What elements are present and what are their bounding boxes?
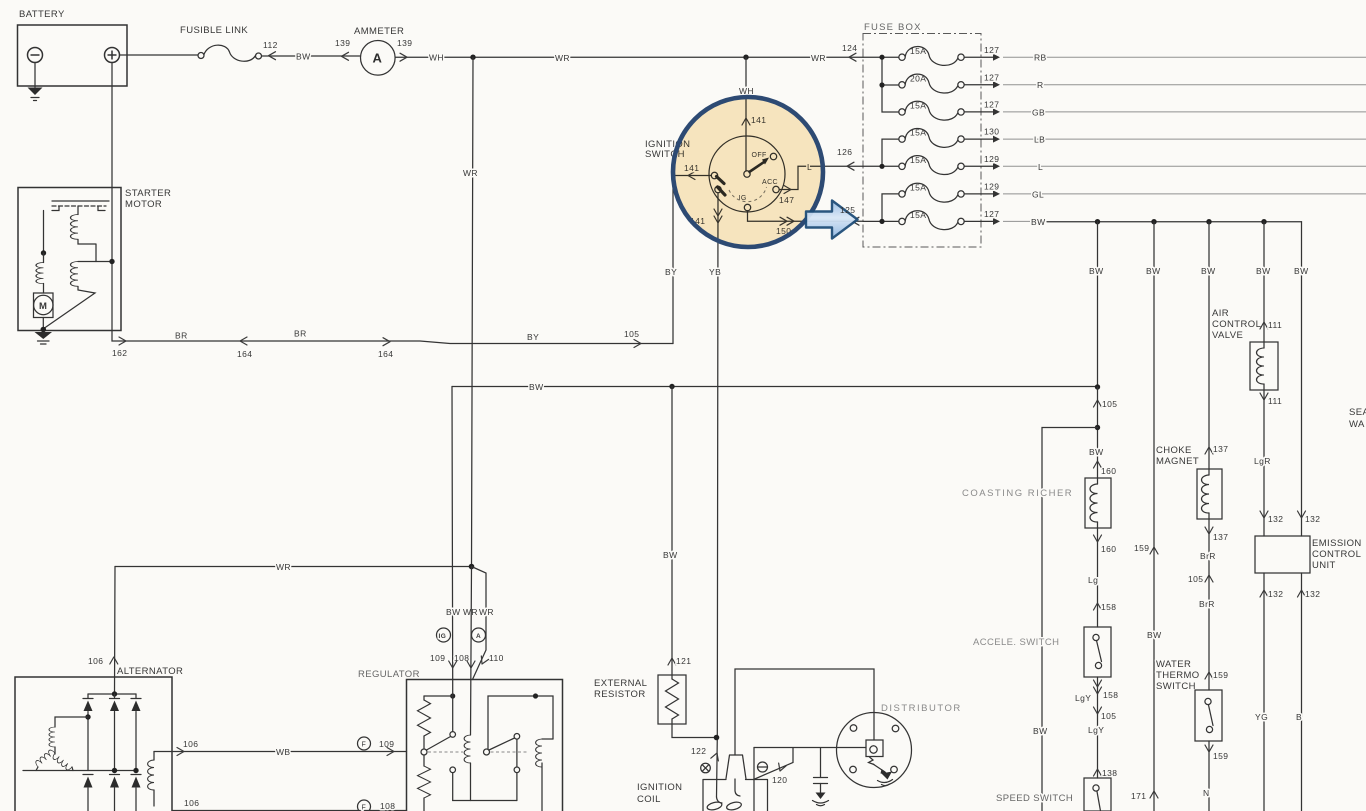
wire WR vertical — [472, 57, 474, 566]
svg-text:F: F — [362, 805, 367, 811]
wire ammeter to fuse box — [395, 56, 863, 58]
svg-text:FUSE BOX: FUSE BOX — [864, 22, 922, 33]
node branch — [1095, 425, 1100, 430]
voltage coil 2 — [542, 738, 553, 740]
svg-text:127: 127 — [984, 45, 999, 55]
svg-text:132: 132 — [1305, 589, 1320, 599]
svg-text:WA: WA — [1349, 419, 1365, 430]
ground (distributor) — [882, 772, 893, 780]
diode D3 — [131, 694, 141, 771]
series field coil (starter) — [43, 253, 45, 263]
svg-text:125: 125 — [840, 205, 855, 215]
regulator box — [407, 680, 563, 811]
svg-text:BW: BW — [529, 382, 544, 392]
emission control unit — [1255, 536, 1310, 573]
svg-text:106: 106 — [183, 739, 198, 749]
breaker points — [866, 740, 883, 757]
resistor R2 — [423, 755, 425, 766]
wire R — [1003, 84, 1366, 86]
svg-text:106: 106 — [184, 798, 199, 808]
contact B (left) — [711, 172, 717, 178]
terminal - — [758, 762, 768, 772]
rotor arm — [873, 764, 885, 772]
wire BW main — [1003, 220, 1030, 222]
svg-text:112: 112 — [263, 40, 278, 50]
svg-text:BW: BW — [1147, 630, 1162, 640]
external resistor body — [658, 675, 686, 724]
svg-text:121: 121 — [676, 656, 691, 666]
wire to stator coil — [55, 717, 88, 727]
svg-text:COIL: COIL — [637, 794, 661, 805]
coil case — [703, 780, 768, 811]
dashed link 1 — [428, 751, 463, 753]
svg-text:SPEED SWITCH: SPEED SWITCH — [996, 793, 1073, 804]
svg-text:132: 132 — [1268, 589, 1283, 599]
svg-text:126: 126 — [837, 147, 852, 157]
svg-text:138: 138 — [1102, 768, 1117, 778]
dashed link 2 — [491, 751, 529, 753]
wire GL — [1003, 193, 1366, 195]
wire branch to accel/speed feeder — [1042, 428, 1098, 811]
voltage coil 1 — [464, 735, 470, 763]
terminal F lower — [358, 800, 371, 811]
starter motor box — [18, 188, 121, 331]
svg-text:BW: BW — [1201, 266, 1216, 276]
svg-text:BW: BW — [1089, 447, 1104, 457]
svg-text:164: 164 — [237, 349, 252, 359]
bottom rail — [453, 800, 517, 802]
svg-text:BY: BY — [527, 332, 539, 342]
svg-text:WB: WB — [276, 747, 291, 757]
terminal F — [358, 737, 371, 750]
diode D6 — [131, 775, 141, 811]
diode D2 — [110, 694, 120, 771]
svg-text:ALTERNATOR: ALTERNATOR — [117, 666, 183, 677]
svg-text:BATTERY: BATTERY — [19, 9, 65, 20]
ground (condenser) — [816, 793, 826, 800]
svg-text:LgY: LgY — [1088, 725, 1104, 735]
wire BW column 2 — [1153, 222, 1155, 811]
node stator tap — [85, 714, 90, 719]
wire WB field to regulator — [154, 751, 407, 753]
node — [469, 564, 475, 570]
svg-text:139: 139 — [335, 38, 350, 48]
HT lead to distributor — [735, 669, 874, 755]
fuse F7 15A — [899, 211, 964, 230]
wire YB vertical (ignition to coil) — [717, 193, 719, 797]
svg-text:AIR: AIR — [1212, 308, 1229, 319]
relay 1 arm — [427, 737, 451, 751]
diode bus top — [88, 693, 136, 695]
svg-text:137: 137 — [1213, 532, 1228, 542]
diode D4 — [83, 775, 93, 811]
fuse F3 15A — [899, 101, 964, 120]
svg-text:108: 108 — [380, 801, 395, 811]
dashed detent arc — [729, 187, 767, 202]
wire BY vertical (ignition to BR line) — [672, 176, 674, 344]
svg-text:CONTROL: CONTROL — [1212, 319, 1261, 330]
bus group 3 — [863, 194, 899, 222]
svg-text:20A: 20A — [910, 74, 926, 84]
wire - terminal to distributor — [754, 748, 794, 780]
node — [41, 327, 47, 333]
svg-text:129: 129 — [984, 182, 999, 192]
svg-text:105: 105 — [1102, 399, 1117, 409]
primary winding — [717, 797, 723, 803]
contact upper — [450, 732, 456, 738]
contact IG — [744, 204, 750, 210]
svg-text:UNIT: UNIT — [1312, 560, 1336, 571]
relay 2 pivot — [484, 749, 490, 755]
wire BW column 1 — [1097, 222, 1099, 387]
svg-text:A: A — [476, 633, 481, 640]
contact ACC — [773, 186, 779, 192]
svg-text:WH: WH — [429, 53, 444, 63]
svg-text:139: 139 — [397, 38, 412, 48]
resistor R1 — [423, 696, 425, 700]
ammeter A — [361, 41, 396, 76]
svg-text:159: 159 — [1213, 751, 1228, 761]
fuse box border — [863, 34, 981, 248]
svg-text:BW: BW — [1033, 726, 1048, 736]
fuse F2 20A — [899, 74, 964, 93]
node BW c3 — [1206, 219, 1211, 224]
svg-text:BY: BY — [665, 267, 677, 277]
ignition switch body — [709, 136, 785, 212]
diode D1 — [83, 694, 93, 771]
callout blue arrow — [806, 201, 858, 239]
svg-text:STARTER: STARTER — [125, 188, 171, 199]
svg-text:BW: BW — [1146, 266, 1161, 276]
svg-text:127: 127 — [984, 209, 999, 219]
contact lower 2 — [514, 767, 520, 773]
svg-text:129: 129 — [984, 154, 999, 164]
wire lower field (cut) — [172, 810, 407, 811]
svg-text:WR: WR — [811, 53, 826, 63]
svg-text:REGULATOR: REGULATOR — [358, 669, 420, 680]
svg-text:RESISTOR: RESISTOR — [594, 689, 646, 700]
node diamond — [669, 384, 674, 389]
wire WR to alternator — [114, 567, 117, 695]
node BW c2 — [1151, 219, 1156, 224]
svg-text:IG: IG — [439, 633, 447, 640]
motor M — [34, 293, 54, 318]
svg-text:ACCELE. SWITCH: ACCELE. SWITCH — [973, 637, 1059, 648]
svg-text:DISTRIBUTOR: DISTRIBUTOR — [881, 703, 962, 714]
svg-text:159: 159 — [1213, 670, 1228, 680]
rotor field coil — [153, 752, 155, 761]
svg-text:158: 158 — [1101, 602, 1116, 612]
svg-text:BrR: BrR — [1199, 599, 1215, 609]
svg-text:CONTROL: CONTROL — [1312, 549, 1361, 560]
svg-text:BW: BW — [663, 550, 678, 560]
water thermo switch — [1195, 690, 1222, 741]
node — [1095, 384, 1100, 389]
svg-text:A: A — [373, 51, 383, 66]
cap contacts — [850, 725, 857, 732]
wire BW down to regulator IG — [451, 387, 454, 680]
svg-text:YB: YB — [709, 267, 721, 277]
key lever — [749, 162, 765, 173]
distributor body — [837, 713, 912, 788]
svg-text:R: R — [1037, 80, 1044, 90]
stator coil vertical — [49, 727, 55, 747]
node BW c4 — [1261, 219, 1266, 224]
node: junction WR vertical — [470, 55, 475, 60]
terminal A — [472, 628, 486, 642]
svg-text:BW: BW — [1294, 266, 1309, 276]
svg-text:EMISSION: EMISSION — [1312, 538, 1362, 549]
svg-text:132: 132 — [1305, 514, 1320, 524]
svg-text:LgR: LgR — [1254, 456, 1271, 466]
svg-text:124: 124 — [842, 43, 857, 53]
node — [41, 250, 46, 255]
wire switch B to BY — [673, 175, 711, 177]
wire GB — [1003, 111, 1366, 113]
stator rail — [23, 770, 137, 772]
wire BR-BY starter to ignition switch — [112, 331, 673, 344]
svg-text:164: 164 — [378, 349, 393, 359]
svg-text:COASTING RICHER: COASTING RICHER — [962, 488, 1073, 499]
svg-text:EXTERNAL: EXTERNAL — [594, 678, 647, 689]
condenser — [820, 748, 822, 778]
svg-text:VALVE: VALVE — [1212, 330, 1243, 341]
svg-text:LB: LB — [1034, 135, 1045, 145]
wire BW column 3 — [1208, 222, 1210, 469]
svg-text:BW: BW — [1089, 266, 1104, 276]
contact upper 2 — [514, 734, 520, 740]
wire link to ammeter, label 112 BW 139 — [262, 55, 361, 57]
node BW c1 — [1095, 219, 1100, 224]
fuse F1 15A — [899, 47, 964, 66]
node — [714, 735, 720, 741]
svg-text:15A: 15A — [910, 183, 926, 193]
svg-text:WR: WR — [463, 607, 478, 617]
wire battery+ to fusible link — [120, 54, 198, 56]
bus group 1 — [863, 57, 899, 112]
solenoid contact bar — [52, 200, 109, 202]
svg-text:111: 111 — [1268, 320, 1282, 330]
svg-text:WR: WR — [479, 607, 494, 617]
fusible link — [198, 53, 204, 59]
svg-text:IGNITION: IGNITION — [637, 782, 682, 793]
wire BW down to external resistor — [671, 387, 673, 676]
coil hold-in (starter) — [78, 261, 112, 263]
svg-text:162: 162 — [112, 348, 127, 358]
wire BW column 5 — [1301, 222, 1303, 536]
diode D5 — [110, 775, 120, 811]
svg-text:WATER: WATER — [1156, 659, 1191, 670]
svg-text:YG: YG — [1255, 712, 1268, 722]
contact OFF — [770, 153, 776, 159]
wire battery+ down to starter motor — [111, 63, 113, 331]
svg-text:THERMO: THERMO — [1156, 670, 1200, 681]
svg-text:WR: WR — [555, 53, 570, 63]
svg-text:127: 127 — [984, 73, 999, 83]
svg-text:BR: BR — [175, 331, 188, 341]
wire IG out to fuse BW — [748, 211, 864, 222]
svg-text:BR: BR — [294, 329, 307, 339]
wire resistor to coil + — [672, 724, 717, 738]
svg-text:15A: 15A — [910, 155, 926, 165]
switch center pivot — [744, 171, 750, 177]
svg-text:109: 109 — [430, 653, 445, 663]
wire branch to regulator 110 — [472, 567, 487, 680]
svg-text:BW: BW — [1256, 266, 1271, 276]
svg-text:15A: 15A — [910, 46, 926, 56]
svg-text:15A: 15A — [910, 128, 926, 138]
relay 1 pivot — [421, 749, 427, 755]
wire L — [1003, 165, 1366, 167]
svg-text:WR: WR — [276, 562, 291, 572]
relay 2 frame — [488, 696, 553, 749]
svg-text:RB: RB — [1034, 53, 1047, 63]
coil tower — [726, 755, 746, 779]
svg-text:105: 105 — [624, 329, 639, 339]
speed switch — [1084, 778, 1111, 811]
relay 2 arm — [489, 738, 515, 750]
svg-text:BrR: BrR — [1200, 551, 1216, 561]
svg-text:LgY: LgY — [1075, 693, 1091, 703]
svg-text:15A: 15A — [910, 210, 926, 220]
svg-text:AMMETER: AMMETER — [354, 26, 404, 37]
svg-text:127: 127 — [984, 100, 999, 110]
wire WR horizontal — [115, 566, 472, 568]
svg-text:GB: GB — [1032, 108, 1045, 118]
fuse F4 15A — [899, 128, 964, 147]
coil pull-in (starter) — [77, 206, 79, 215]
node: junction ignition switch feed — [743, 55, 748, 60]
stator star windings — [34, 749, 55, 767]
wire RB — [1003, 56, 1366, 58]
bus group 2 — [863, 139, 899, 166]
svg-text:158: 158 — [1103, 690, 1118, 700]
wire A into regulator — [471, 567, 472, 736]
svg-text:WR: WR — [463, 168, 478, 178]
svg-text:105: 105 — [1101, 711, 1116, 721]
coasting richer coil — [1085, 478, 1111, 528]
key wards — [717, 177, 726, 196]
node resistor top — [450, 693, 455, 698]
wire BW column 4 — [1263, 222, 1265, 342]
wire switch to YB (down) arrows — [714, 209, 722, 216]
alternator box — [15, 677, 172, 811]
svg-text:15A: 15A — [910, 101, 926, 111]
fuse F6 15A — [899, 183, 964, 202]
svg-text:N: N — [1203, 788, 1210, 798]
svg-text:105: 105 — [1188, 574, 1203, 584]
ground (battery) — [34, 63, 36, 88]
wire LB — [1003, 138, 1366, 140]
svg-text:MOTOR: MOTOR — [125, 199, 162, 210]
wire ACC out to fuse L — [779, 166, 863, 189]
svg-text:110: 110 — [489, 653, 504, 663]
ground (starter motor) — [35, 332, 53, 339]
svg-text:M: M — [39, 301, 47, 312]
svg-text:122: 122 — [691, 746, 706, 756]
svg-text:CHOKE: CHOKE — [1156, 445, 1192, 456]
fuse outputs — [964, 57, 994, 221]
battery — [18, 25, 128, 86]
svg-text:171: 171 — [1131, 791, 1146, 801]
choke magnet coil — [1197, 469, 1222, 519]
svg-text:WH: WH — [739, 86, 754, 96]
fuse F5 15A — [899, 156, 964, 175]
wire left contact down — [43, 211, 45, 254]
wire BW horizontal (ignition feed bus) — [452, 386, 1098, 388]
svg-text:120: 120 — [772, 775, 787, 785]
accele switch — [1084, 627, 1111, 677]
svg-text:BW: BW — [296, 52, 311, 62]
svg-text:B: B — [1296, 712, 1302, 722]
svg-text:111: 111 — [1268, 396, 1282, 406]
contact lower — [450, 767, 456, 773]
svg-text:FUSIBLE LINK: FUSIBLE LINK — [180, 25, 248, 36]
svg-text:GL: GL — [1032, 190, 1044, 200]
svg-text:BW: BW — [1031, 217, 1046, 227]
svg-text:L: L — [1038, 162, 1043, 172]
svg-text:SEA: SEA — [1349, 407, 1366, 418]
svg-text:Lg: Lg — [1088, 575, 1098, 585]
svg-text:106: 106 — [88, 656, 103, 666]
svg-text:SWITCH: SWITCH — [1156, 681, 1196, 692]
node on battery feed — [109, 259, 114, 264]
wire WH feed into switch — [745, 57, 747, 171]
svg-text:130: 130 — [984, 127, 999, 137]
terminal + — [701, 763, 711, 773]
svg-text:132: 132 — [1268, 514, 1283, 524]
svg-text:MAGNET: MAGNET — [1156, 456, 1199, 467]
svg-text:160: 160 — [1101, 544, 1116, 554]
svg-text:160: 160 — [1101, 466, 1116, 476]
svg-text:137: 137 — [1213, 444, 1228, 454]
svg-text:F: F — [362, 742, 367, 749]
air control valve coil — [1250, 342, 1278, 390]
svg-text:159: 159 — [1134, 543, 1149, 553]
terminal IG — [437, 628, 451, 642]
svg-text:BW: BW — [446, 607, 461, 617]
